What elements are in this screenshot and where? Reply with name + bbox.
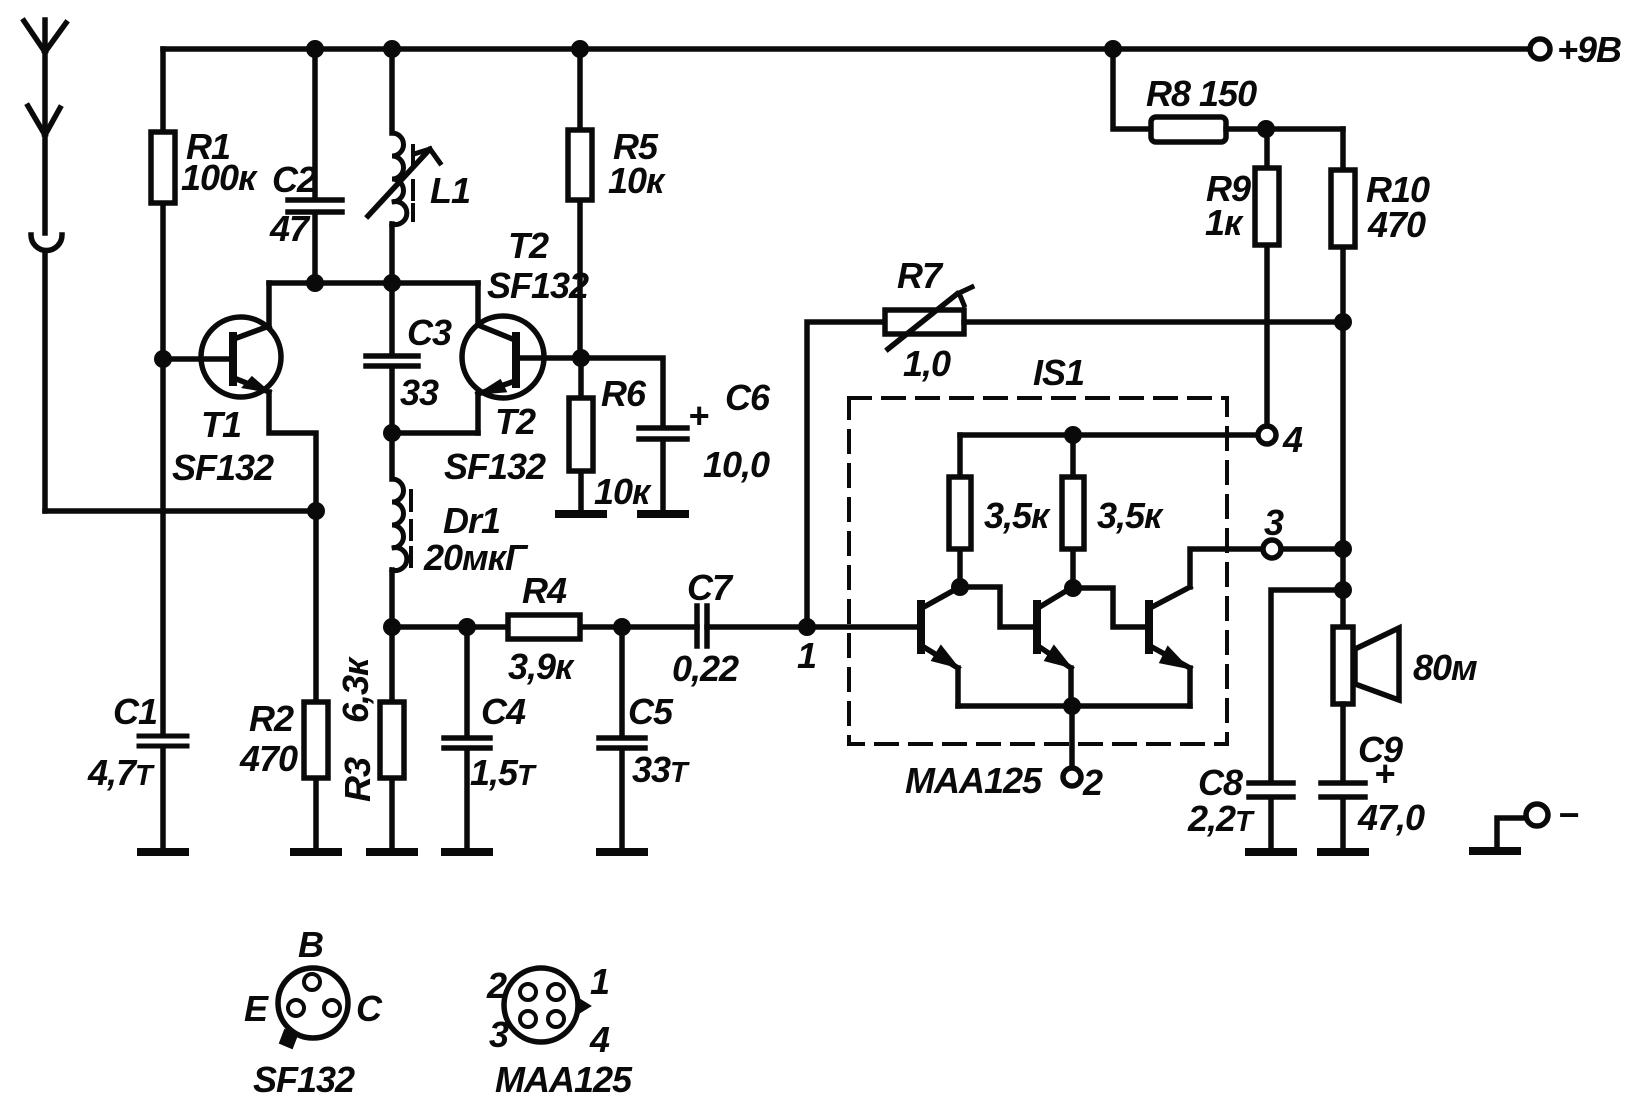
node C2 bottom: [306, 274, 324, 292]
internal resistor 3,5k right: [1062, 435, 1164, 587]
svg-text:L1: L1: [430, 170, 470, 211]
capacitor C6: [581, 358, 771, 512]
choke Dr1: [392, 433, 529, 627]
capacitor C2: [269, 49, 342, 283]
pinout SF132: [244, 924, 383, 1100]
svg-text:80м: 80м: [1413, 647, 1477, 688]
svg-text:100к: 100к: [181, 157, 258, 198]
ground C4: [445, 848, 489, 856]
terminal +9V: [1530, 29, 1621, 70]
svg-text:C6: C6: [725, 377, 771, 418]
node L1 top: [383, 40, 401, 58]
capacitor C5: [599, 627, 690, 850]
svg-text:33: 33: [400, 372, 439, 413]
svg-text:+: +: [688, 395, 709, 436]
node pin3/R10: [1334, 540, 1352, 558]
transistor T1: [163, 283, 316, 511]
svg-text:4: 4: [1282, 419, 1303, 460]
node Q1 collector: [951, 578, 969, 596]
node L1 bottom: [383, 274, 401, 292]
node internal rail: [1064, 426, 1082, 444]
svg-text:C4: C4: [481, 691, 526, 732]
pinout MAA125: [486, 961, 633, 1100]
ground R3: [370, 848, 414, 856]
wire +9V top rail: [163, 46, 1529, 52]
svg-text:T1: T1: [201, 404, 241, 445]
ground R2: [294, 848, 338, 856]
svg-text:470: 470: [1367, 204, 1426, 245]
svg-text:2: 2: [486, 965, 507, 1006]
svg-text:1,0: 1,0: [903, 343, 951, 384]
svg-text:R7: R7: [897, 255, 944, 296]
svg-text:4: 4: [589, 1019, 610, 1060]
resistor R9: [1205, 129, 1279, 426]
node R5 top: [571, 40, 589, 58]
svg-text:−: −: [1558, 794, 1579, 835]
pin 3: [1263, 502, 1343, 558]
wire Q2 collector to Q3 base: [1073, 588, 1146, 627]
wire internal collector rail to pin 4: [960, 432, 1258, 438]
node T1 base: [154, 350, 172, 368]
node C2 top: [306, 40, 324, 58]
svg-text:1к: 1к: [1205, 202, 1244, 243]
svg-text:47,0: 47,0: [1357, 797, 1425, 838]
svg-text:C3: C3: [407, 312, 452, 353]
svg-text:C8: C8: [1198, 762, 1243, 803]
svg-text:3: 3: [489, 1014, 509, 1055]
resistor R1: [151, 49, 258, 359]
ground R6: [559, 510, 603, 518]
ground C1: [141, 848, 185, 856]
node C3 bottom: [383, 424, 401, 442]
resistor R4: [508, 570, 580, 687]
node R8 branch: [1104, 40, 1122, 58]
svg-text:SF132: SF132: [487, 265, 589, 306]
node Q2 collector: [1064, 579, 1082, 597]
speaker: [1333, 627, 1477, 704]
ground minus terminal: [1473, 847, 1517, 855]
svg-text:470: 470: [239, 738, 298, 779]
node C8 branch: [1334, 581, 1352, 599]
ground C9: [1321, 848, 1365, 856]
svg-text:R2: R2: [249, 698, 294, 739]
svg-text:В: В: [298, 924, 323, 965]
svg-text:10,0: 10,0: [703, 444, 770, 485]
terminal minus: [1497, 794, 1579, 848]
svg-text:T2: T2: [495, 401, 536, 442]
svg-text:SF132: SF132: [172, 447, 274, 488]
wire node1 to R7: [807, 322, 885, 627]
node C5 top: [613, 618, 631, 636]
svg-text:T2: T2: [508, 225, 549, 266]
IC transistor Q1: [921, 588, 958, 706]
svg-text:SF132: SF132: [253, 1059, 355, 1100]
ground C5: [600, 848, 644, 856]
svg-text:E: E: [244, 988, 269, 1029]
svg-text:MAA125: MAA125: [905, 760, 1043, 801]
svg-text:3,5к: 3,5к: [1097, 495, 1164, 536]
svg-text:R4: R4: [522, 570, 567, 611]
svg-text:0,22: 0,22: [672, 648, 739, 689]
svg-text:C1: C1: [113, 691, 157, 732]
node T2 base junction: [572, 349, 590, 367]
resistor R6: [569, 358, 652, 512]
node antenna/emitter/R2: [307, 502, 325, 520]
svg-text:R8 150: R8 150: [1146, 73, 1257, 114]
wire antenna to T1 emitter node: [45, 508, 314, 514]
svg-text:MAA125: MAA125: [495, 1059, 633, 1100]
capacitor C1: [87, 359, 187, 850]
wire signal line: [392, 624, 921, 630]
svg-text:2: 2: [1082, 762, 1103, 803]
resistor R5: [568, 49, 666, 358]
svg-text:IS1: IS1: [1033, 352, 1084, 393]
svg-text:1: 1: [590, 961, 609, 1002]
IC transistor Q3: [1149, 549, 1263, 706]
svg-text:C: C: [356, 988, 383, 1029]
capacitor C8: [1187, 590, 1343, 850]
node Dr1 bottom: [383, 618, 401, 636]
antenna: [24, 20, 66, 511]
wire IC emitter rail: [958, 703, 1190, 709]
svg-text:6,3к: 6,3к: [335, 656, 376, 723]
internal resistor 3,5k left: [949, 435, 1051, 586]
wire T2 emitter to C3 node: [392, 430, 478, 436]
svg-text:10к: 10к: [594, 471, 652, 512]
capacitor C7: [672, 567, 739, 689]
svg-text:C7: C7: [687, 567, 734, 608]
svg-text:R3: R3: [337, 757, 378, 802]
node 1: [797, 618, 816, 676]
resistor R10: [1331, 129, 1430, 627]
capacitor C4: [444, 627, 537, 850]
pin 2: [1063, 706, 1103, 803]
transistor T2: [444, 225, 589, 487]
inductor L1: [368, 49, 470, 283]
svg-text:Dr1: Dr1: [443, 500, 500, 541]
node R7/R10: [1334, 313, 1352, 331]
svg-text:R6: R6: [601, 373, 647, 414]
ground C8: [1249, 848, 1293, 856]
node emitter rail: [1063, 697, 1081, 715]
svg-text:20мкГ: 20мкГ: [423, 537, 529, 578]
svg-text:47: 47: [269, 208, 311, 249]
node C4 top: [458, 618, 476, 636]
node R9 top: [1257, 120, 1275, 138]
svg-text:C5: C5: [628, 691, 674, 732]
ground C6: [641, 510, 685, 518]
svg-text:3,9к: 3,9к: [508, 646, 575, 687]
wire tank node: [269, 280, 478, 286]
IC IS1 dashed box: [849, 352, 1227, 801]
svg-text:C2: C2: [272, 159, 317, 200]
capacitor C9: [1321, 704, 1425, 850]
svg-text:SF132: SF132: [444, 446, 546, 487]
svg-text:3,5к: 3,5к: [984, 495, 1051, 536]
resistor R8: [1113, 49, 1343, 142]
svg-text:10к: 10к: [608, 160, 666, 201]
capacitor C3: [366, 283, 452, 433]
svg-text:1: 1: [797, 635, 816, 676]
resistor R2: [239, 511, 328, 850]
svg-text:3: 3: [1264, 502, 1284, 543]
resistor R3: [335, 627, 404, 850]
resistor R7 variable: [885, 255, 1343, 384]
pin 4: [1258, 419, 1303, 460]
wire Q1 collector to Q2 base: [960, 587, 1034, 627]
IC transistor Q2: [1037, 588, 1071, 706]
svg-text:+: +: [1374, 753, 1395, 794]
svg-text:+9В: +9В: [1557, 29, 1621, 70]
